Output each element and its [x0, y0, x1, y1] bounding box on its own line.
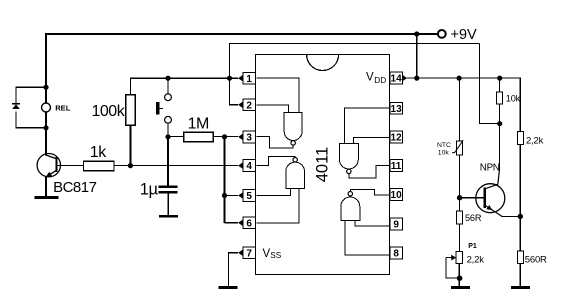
wire 100k bottom	[129, 125, 131, 166]
resistor 100k	[126, 95, 136, 125]
potentiometer P1 2,2k	[456, 252, 462, 264]
thermistor NTC 10k	[458, 78, 460, 141]
node junction 100k bottom	[128, 163, 133, 168]
pin 13	[390, 102, 403, 115]
svg-text:DD: DD	[374, 76, 386, 85]
ground below BC817	[35, 196, 59, 199]
wire top +9V rail	[46, 34, 437, 87]
wire pins 3-5-6 vertical	[224, 137, 226, 223]
ground below C1	[159, 215, 178, 218]
wire +9V dot down to pin 14	[416, 34, 418, 78]
node button bottom / 1M left	[165, 134, 170, 139]
node emitter junction	[518, 214, 523, 219]
node relay top	[43, 85, 48, 90]
resistor 56R	[458, 198, 460, 211]
wire base to 1k	[57, 165, 84, 167]
resistor 2,2k	[517, 132, 523, 145]
IC notch	[307, 55, 339, 71]
node relay bottom	[43, 125, 48, 130]
svg-text:6: 6	[246, 218, 252, 229]
svg-text:10k: 10k	[506, 93, 521, 103]
svg-text:2,2k: 2,2k	[467, 254, 485, 265]
wire to 1M	[168, 136, 184, 138]
wire gate output to pin 4	[256, 157, 295, 166]
wire pin8 to gate input	[345, 221, 390, 255]
wire diode branch top	[16, 87, 46, 103]
wire 1k to pin 4	[114, 165, 238, 167]
wire collector up to 10k node	[485, 169, 500, 189]
IC 4011 body	[256, 55, 390, 275]
svg-text:4: 4	[246, 161, 252, 172]
NAND gate C body (pins 11,12,13)	[339, 144, 358, 169]
node junction at pin 14	[414, 76, 419, 81]
svg-text:1: 1	[246, 74, 252, 85]
node 10k bottom junction	[497, 121, 502, 126]
svg-text:560R: 560R	[525, 254, 547, 265]
svg-text:14: 14	[391, 74, 403, 85]
wire junction to pin 5	[225, 195, 239, 197]
svg-text:100k: 100k	[92, 103, 126, 120]
node pin5 junction	[222, 193, 227, 198]
node crossing to pin 1	[227, 76, 232, 81]
wire gate output to pin 10	[350, 189, 389, 195]
capacitor 1u	[159, 186, 178, 189]
svg-text:10k: 10k	[438, 150, 450, 157]
pin 3	[238, 131, 255, 144]
svg-text:1µ: 1µ	[140, 180, 159, 198]
pin 14	[390, 72, 407, 85]
wire emitter to right rail	[485, 205, 502, 216]
ground below P1	[451, 286, 470, 289]
svg-text:2: 2	[246, 100, 252, 111]
svg-text:56R: 56R	[465, 213, 482, 223]
wire pin1 node horizontal	[130, 78, 238, 95]
wire cap to ground	[167, 193, 169, 215]
wire pin2 to gate input	[256, 105, 288, 112]
NAND gate A body (pins 1,2,3)	[284, 113, 302, 141]
pin 8	[390, 247, 403, 260]
pin 11	[390, 160, 403, 173]
svg-text:NPN: NPN	[480, 162, 500, 173]
node button top	[165, 76, 170, 81]
wire pin6 to gate input	[256, 189, 299, 223]
svg-text:4011: 4011	[314, 147, 332, 182]
transistor NPN	[476, 184, 505, 213]
pin 12	[390, 131, 403, 144]
wire gate output to pin 3	[256, 137, 293, 148]
ground below pin 7	[218, 286, 237, 289]
svg-text:8: 8	[393, 249, 399, 260]
pin 9	[390, 218, 403, 231]
svg-text:11: 11	[391, 161, 402, 172]
svg-text:V: V	[366, 72, 374, 84]
resistor 560R	[519, 216, 521, 251]
wire pin9 to gate input	[355, 221, 390, 226]
resistor 1M	[184, 132, 214, 141]
transistor BC817	[37, 154, 60, 177]
wire pin 7 to ground	[229, 253, 238, 286]
NAND gate B body (pins 4,5,6)	[286, 162, 305, 188]
wire pin1 to gate input	[256, 78, 299, 112]
node pin3 junction	[222, 134, 227, 139]
svg-text:1k: 1k	[90, 144, 107, 161]
NAND gate D body (pins 8,9,10)	[341, 197, 360, 220]
svg-text:3: 3	[246, 133, 252, 144]
ground below 560R	[511, 286, 530, 289]
svg-text:9: 9	[393, 220, 399, 231]
pin 7	[238, 247, 255, 260]
svg-text:REL: REL	[55, 103, 71, 112]
svg-text:5: 5	[246, 191, 252, 202]
terminal +9V	[438, 30, 446, 38]
svg-text:10: 10	[391, 190, 403, 201]
wire pin12 to gate input	[354, 138, 390, 144]
svg-text:SS: SS	[270, 251, 281, 260]
svg-text:P1: P1	[468, 243, 477, 250]
svg-text:2,2k: 2,2k	[526, 136, 544, 147]
svg-text:V: V	[263, 248, 271, 260]
wire link down right side	[479, 44, 499, 124]
pin 2	[238, 99, 255, 112]
wire 1M to pin 3	[213, 136, 238, 138]
svg-text:1M: 1M	[188, 116, 209, 133]
node NTC top	[457, 76, 462, 81]
wire pin13 to gate input	[344, 108, 389, 143]
wire gate output to pin 11	[349, 165, 390, 178]
svg-text:BC817: BC817	[53, 179, 97, 196]
node 10k top	[497, 76, 502, 81]
relay REL coil circle	[42, 103, 51, 112]
node base junction	[457, 195, 462, 200]
wire pin5 to gate input	[256, 189, 290, 196]
node P1 bottom	[457, 275, 463, 281]
pushbutton	[167, 78, 169, 94]
pin 5	[238, 190, 255, 203]
wire relay column (collector lead)	[45, 87, 47, 103]
wire cap branch	[167, 137, 169, 186]
node junction +9V rail to VDD	[414, 31, 419, 36]
svg-text:NTC: NTC	[437, 142, 451, 149]
resistor 10k	[499, 78, 501, 92]
pin 6	[238, 217, 255, 230]
wire emitter to ground	[45, 177, 47, 197]
wire diode branch bottom	[16, 112, 46, 128]
svg-text:13: 13	[391, 104, 403, 115]
pin 4	[238, 160, 255, 173]
wire pins1/2 to VDD link	[230, 44, 480, 105]
resistor 1k	[84, 161, 114, 171]
flyback diode across relay	[12, 103, 20, 105]
svg-text:7: 7	[246, 248, 252, 259]
pin 10	[390, 189, 403, 202]
svg-text:12: 12	[391, 133, 403, 144]
wire pin14 rail	[407, 78, 520, 132]
pin 1	[238, 72, 255, 85]
svg-text:+9V: +9V	[451, 27, 478, 43]
